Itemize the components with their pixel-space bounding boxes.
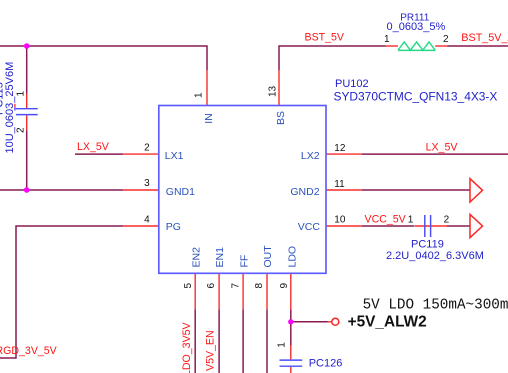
svg-text:PU102: PU102 — [335, 78, 369, 90]
svg-text:9: 9 — [279, 283, 290, 289]
svg-text:V5V_EN: V5V_EN — [205, 330, 217, 371]
svg-text:5: 5 — [183, 283, 194, 289]
svg-text:OUT: OUT — [262, 245, 274, 268]
svg-text:LX2: LX2 — [301, 150, 320, 162]
svg-text:GND2: GND2 — [290, 186, 319, 198]
svg-text:PG: PG — [166, 221, 181, 233]
svg-text:RGD_3V_5V: RGD_3V_5V — [0, 345, 58, 357]
svg-text:12: 12 — [334, 143, 346, 154]
svg-text:IN: IN — [203, 113, 215, 124]
svg-text:EN1: EN1 — [214, 247, 226, 268]
svg-text:5V LDO 150mA~300mA: 5V LDO 150mA~300mA — [363, 297, 508, 313]
svg-text:1: 1 — [194, 92, 205, 98]
svg-text:EN2: EN2 — [190, 247, 202, 268]
svg-text:PC126: PC126 — [309, 358, 343, 370]
svg-text:6: 6 — [206, 283, 217, 289]
svg-text:13: 13 — [267, 85, 278, 97]
svg-text:LX1: LX1 — [165, 150, 184, 162]
svg-text:VCC: VCC — [298, 221, 321, 233]
svg-text:PC119: PC119 — [411, 239, 444, 251]
svg-text:11: 11 — [334, 179, 345, 190]
svg-text:4: 4 — [144, 215, 150, 226]
svg-text:BST_5V_A: BST_5V_A — [461, 32, 508, 44]
svg-text:2: 2 — [144, 143, 150, 154]
svg-text:LDO_3V5V: LDO_3V5V — [181, 321, 193, 373]
svg-text:1: 1 — [408, 215, 414, 226]
svg-text:2: 2 — [16, 127, 27, 133]
svg-text:PC115: PC115 — [0, 82, 6, 115]
svg-text:0_0603_5%: 0_0603_5% — [387, 21, 446, 33]
svg-text:+5V_ALW2: +5V_ALW2 — [348, 314, 427, 331]
svg-text:10U_0603_25V6M: 10U_0603_25V6M — [4, 62, 16, 154]
svg-text:2: 2 — [444, 215, 450, 226]
svg-text:7: 7 — [231, 283, 242, 289]
svg-text:3: 3 — [144, 178, 150, 189]
svg-text:LDO: LDO — [286, 246, 298, 268]
svg-text:10: 10 — [334, 215, 346, 226]
svg-text:LX_5V: LX_5V — [77, 141, 110, 153]
svg-text:1: 1 — [15, 91, 26, 97]
svg-text:8: 8 — [254, 283, 265, 289]
svg-text:VCC_5V: VCC_5V — [365, 213, 407, 225]
svg-text:2.2U_0402_6.3V6M: 2.2U_0402_6.3V6M — [386, 250, 484, 262]
svg-text:1: 1 — [384, 34, 390, 45]
svg-text:1: 1 — [277, 342, 288, 348]
svg-text:FF: FF — [238, 255, 250, 268]
svg-text:LX_5V: LX_5V — [426, 141, 459, 153]
svg-text:BST_5V: BST_5V — [305, 32, 345, 44]
svg-text:BS: BS — [275, 111, 287, 125]
svg-text:SYD370CTMC_QFN13_4X3-X: SYD370CTMC_QFN13_4X3-X — [334, 89, 498, 103]
svg-text:2: 2 — [443, 34, 449, 45]
svg-text:GND1: GND1 — [166, 186, 195, 198]
